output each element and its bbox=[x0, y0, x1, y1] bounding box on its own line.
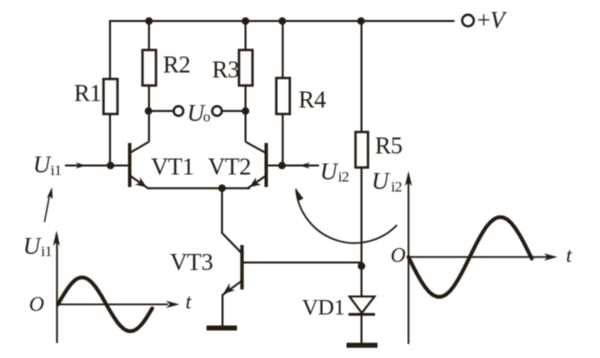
svg-text:O: O bbox=[391, 243, 406, 267]
svg-text:i1: i1 bbox=[51, 163, 62, 179]
svg-text:U: U bbox=[33, 153, 52, 179]
svg-text:i1: i1 bbox=[41, 244, 52, 260]
svg-text:U: U bbox=[320, 160, 339, 186]
svg-text:R3: R3 bbox=[212, 58, 240, 84]
svg-text:O: O bbox=[29, 292, 44, 316]
svg-text:i2: i2 bbox=[338, 170, 349, 186]
svg-text:i2: i2 bbox=[391, 180, 402, 196]
svg-text:+V: +V bbox=[477, 8, 507, 34]
svg-text:U: U bbox=[23, 234, 42, 260]
svg-text:VT3: VT3 bbox=[170, 250, 213, 276]
svg-text:t: t bbox=[566, 243, 573, 267]
svg-text:R1: R1 bbox=[74, 81, 101, 107]
svg-text:U: U bbox=[372, 169, 391, 195]
svg-text:R2: R2 bbox=[163, 53, 190, 79]
svg-text:VD1: VD1 bbox=[302, 295, 345, 320]
svg-text:VT2: VT2 bbox=[208, 155, 251, 181]
svg-text:VT1: VT1 bbox=[151, 155, 194, 181]
svg-text:R5: R5 bbox=[375, 134, 403, 160]
svg-text:t: t bbox=[186, 290, 193, 314]
svg-text:o: o bbox=[203, 110, 210, 126]
svg-text:R4: R4 bbox=[299, 88, 327, 114]
